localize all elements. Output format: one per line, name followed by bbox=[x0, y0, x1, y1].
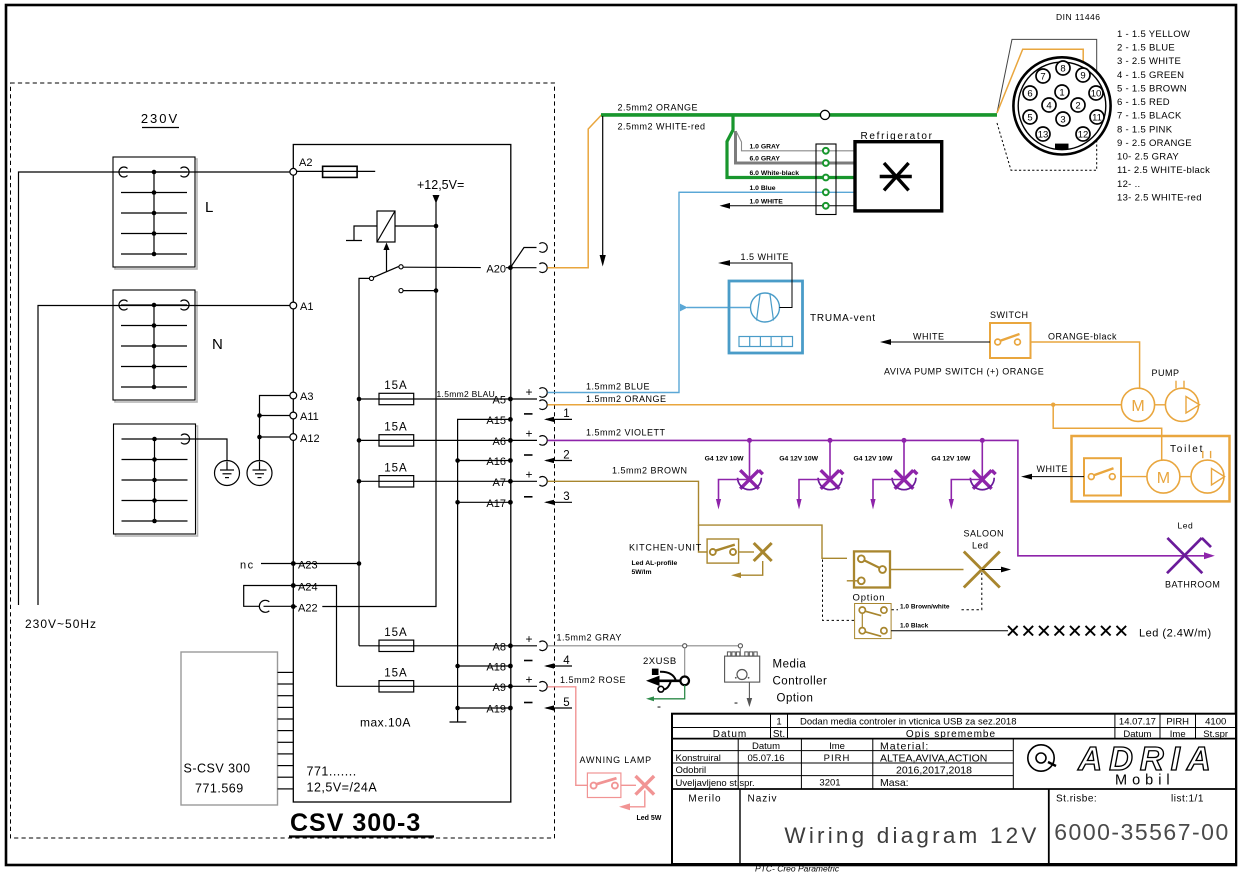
svg-text:G4 12V 10W: G4 12V 10W bbox=[931, 456, 970, 463]
svg-text:TRUMA-vent: TRUMA-vent bbox=[810, 313, 876, 324]
svg-text:+: + bbox=[526, 427, 533, 441]
ADRIA logo bbox=[1028, 740, 1218, 789]
terminal A7 bbox=[508, 479, 513, 484]
svg-text:St.risbe:: St.risbe: bbox=[1056, 794, 1097, 805]
svg-text:A8: A8 bbox=[493, 641, 506, 653]
wire A5 stub bbox=[510, 398, 537, 400]
wire 1.0 Black to led strip bbox=[891, 630, 1008, 632]
svg-text:PIRH: PIRH bbox=[824, 753, 851, 764]
wire plug to A22 bbox=[264, 605, 294, 607]
terminal A5 bbox=[508, 397, 513, 402]
wire brown branch to kitchen switch bbox=[699, 525, 708, 552]
svg-text:1 - 1.5 YELLOW: 1 - 1.5 YELLOW bbox=[1117, 29, 1190, 40]
svg-text:230V: 230V bbox=[141, 111, 179, 126]
pin 8 bbox=[1056, 61, 1070, 75]
junction orange to toilet bbox=[1051, 403, 1055, 407]
wire contact NO to A20 bbox=[403, 266, 510, 269]
svg-text:Material:: Material: bbox=[880, 740, 929, 752]
wire N neutral from supply to A1 bbox=[38, 306, 293, 606]
svg-text:A19: A19 bbox=[486, 704, 506, 716]
connector pin S-CSV 9 bbox=[278, 765, 294, 767]
svg-text:DIN 11446: DIN 11446 bbox=[1056, 12, 1101, 22]
wire L phase from supply to A2 bbox=[19, 172, 294, 605]
relay K1 bbox=[377, 211, 395, 242]
arrow violet wire end bbox=[1204, 552, 1215, 559]
connector pin S-CSV 11 bbox=[278, 788, 294, 790]
svg-text:A1: A1 bbox=[300, 301, 313, 313]
dotted outline bottom bbox=[997, 123, 1097, 170]
terminal A1 bbox=[290, 302, 297, 309]
svg-text:771.569: 771.569 bbox=[195, 782, 244, 796]
svg-text:1.5mm2 ORANGE: 1.5mm2 ORANGE bbox=[586, 394, 667, 404]
kitchen Led lamp bbox=[754, 543, 772, 561]
svg-text:13: 13 bbox=[1038, 129, 1049, 140]
terminal A24 bbox=[291, 583, 296, 588]
title block bbox=[672, 714, 1236, 864]
svg-text:WHITE: WHITE bbox=[1037, 464, 1069, 474]
svg-text:15A: 15A bbox=[384, 627, 407, 639]
wire A9 stub bbox=[510, 685, 537, 687]
svg-text:1.5mm2 BROWN: 1.5mm2 BROWN bbox=[612, 466, 688, 476]
wire earth bus to A3/A11/A12 bbox=[260, 396, 294, 461]
svg-text:-: - bbox=[657, 699, 661, 713]
svg-text:A22: A22 bbox=[298, 603, 318, 615]
svg-text:6: 6 bbox=[1027, 88, 1032, 99]
svg-text:St.spr: St.spr bbox=[1203, 729, 1228, 740]
earth ground symbol 2 bbox=[247, 461, 272, 486]
wire switch to kitchen lamp bbox=[739, 551, 754, 553]
lamp G4 12V 10W #3 bbox=[854, 438, 918, 510]
svg-text:2.5mm2 WHITE-red: 2.5mm2 WHITE-red bbox=[618, 122, 706, 132]
connector hook A6 bbox=[539, 436, 547, 446]
wire media controller minus arrow bbox=[747, 682, 753, 707]
fuse 15A feeding A9 bbox=[379, 667, 414, 692]
ground symbol minus bus bbox=[450, 711, 467, 722]
svg-text:SALOON: SALOON bbox=[964, 529, 1005, 539]
svg-text:3 - 2.5 WHITE: 3 - 2.5 WHITE bbox=[1117, 56, 1181, 67]
led strip segment 8 bbox=[1117, 626, 1127, 636]
connector hook A20 upper bbox=[539, 243, 547, 253]
svg-text:A7: A7 bbox=[493, 477, 506, 489]
terminal A20 bbox=[508, 265, 513, 270]
svg-text:Mobil: Mobil bbox=[1115, 773, 1175, 789]
connector pin S-CSV 7 bbox=[278, 741, 294, 743]
svg-text:A16: A16 bbox=[486, 456, 506, 468]
wire fuse row A9 bbox=[337, 685, 511, 687]
svg-text:A2: A2 bbox=[299, 157, 312, 169]
wire WHITE to toilet switch bbox=[1021, 474, 1084, 480]
terminal A16 bbox=[508, 458, 513, 463]
svg-text:771.......: 771....... bbox=[307, 765, 357, 779]
svg-text:A12: A12 bbox=[300, 433, 320, 445]
svg-text:ORANGE-black: ORANGE-black bbox=[1048, 332, 1117, 342]
svg-text:1: 1 bbox=[1059, 87, 1064, 98]
svg-text:Controller: Controller bbox=[773, 676, 828, 688]
wire A7 stub bbox=[510, 480, 537, 482]
dashed boundary box CSV 300-3 bbox=[11, 83, 555, 838]
connector hook A8 bbox=[539, 641, 547, 651]
svg-text:1.0 WHITE: 1.0 WHITE bbox=[750, 198, 784, 205]
pin 10 bbox=[1089, 86, 1103, 100]
connector pin S-CSV 10 bbox=[278, 776, 294, 778]
pin 9 bbox=[1076, 68, 1090, 82]
connector pin S-CSV 6 bbox=[278, 730, 294, 732]
svg-text:Datum: Datum bbox=[1123, 729, 1151, 740]
wire blue branch to TRUMA bbox=[680, 304, 751, 312]
wire 1.0 GRAY thin bbox=[736, 131, 855, 151]
terminal block N (230V neutral) bbox=[113, 290, 197, 402]
snowflake symbol bbox=[880, 163, 912, 190]
S-CSV 300 module bbox=[181, 652, 278, 805]
terminal A6 bbox=[508, 438, 513, 443]
connector hook A5 blue bbox=[539, 388, 547, 398]
svg-text:10- 2.5 GRAY: 10- 2.5 GRAY bbox=[1117, 152, 1179, 163]
svg-text:Uveljavljeno st.spr.: Uveljavljeno st.spr. bbox=[676, 778, 755, 789]
plug socket on A22 line bbox=[259, 600, 269, 612]
Toilet unit box bbox=[1072, 436, 1230, 501]
pin 2 bbox=[1071, 98, 1085, 112]
svg-text:CSV 300-3: CSV 300-3 bbox=[290, 809, 421, 837]
connector hook A5 orange bbox=[539, 400, 547, 410]
svg-text:Datum: Datum bbox=[713, 729, 747, 740]
saloon Led lamp bbox=[964, 552, 1000, 588]
dotted link kitchen to option2 bbox=[823, 560, 855, 621]
svg-text:Ime: Ime bbox=[1170, 729, 1186, 740]
terminal A9 bbox=[508, 684, 513, 689]
svg-text:12- ..: 12- .. bbox=[1117, 179, 1140, 190]
terminal A18 bbox=[508, 664, 513, 669]
svg-text:AVIVA PUMP SWITCH (+) ORANGE: AVIVA PUMP SWITCH (+) ORANGE bbox=[884, 367, 1044, 377]
svg-text:6 - 1.5 RED: 6 - 1.5 RED bbox=[1117, 97, 1170, 108]
pump buzzer bbox=[1155, 381, 1200, 422]
toilet buzzer bbox=[1180, 451, 1225, 493]
fuse on A2 line bbox=[323, 166, 358, 177]
terminal block L (230V live) bbox=[113, 157, 197, 269]
svg-text:8 - 1.5 PINK: 8 - 1.5 PINK bbox=[1117, 124, 1173, 135]
svg-text:Toilet: Toilet bbox=[1170, 444, 1204, 455]
wire orange A20 feed up to main bus bbox=[548, 115, 602, 268]
svg-text:Opis spremembe: Opis spremembe bbox=[906, 729, 996, 740]
svg-text:St.: St. bbox=[773, 729, 785, 740]
led strip segment 2 bbox=[1024, 626, 1034, 636]
svg-text:15A: 15A bbox=[384, 421, 407, 433]
lamp G4 12V 10W #4 bbox=[931, 438, 995, 510]
wire 6.0 GRAY thick bbox=[736, 131, 856, 163]
wire A24 to fuse A9 feed bbox=[293, 586, 336, 687]
wire 1.5mm2 BROWN from A7 to kitchen/saloon bbox=[548, 481, 848, 558]
pin 13 bbox=[1036, 127, 1050, 141]
keying notch bbox=[1055, 144, 1069, 149]
kitchen switch bbox=[707, 539, 739, 563]
wire 6.0 White-black green drop bbox=[727, 117, 855, 178]
svg-text:Led: Led bbox=[972, 541, 989, 551]
svg-text:A23: A23 bbox=[298, 560, 318, 572]
svg-text:1.0 Blue: 1.0 Blue bbox=[750, 185, 776, 192]
svg-text:+12,5V=: +12,5V= bbox=[417, 178, 464, 192]
wire ORANGE-black switch to pump bbox=[1031, 342, 1140, 388]
svg-text:14.07.17: 14.07.17 bbox=[1119, 717, 1156, 728]
svg-text:5: 5 bbox=[1027, 112, 1032, 123]
svg-text:SWITCH: SWITCH bbox=[990, 310, 1029, 320]
pin 5 bbox=[1023, 110, 1037, 124]
led strip segment 1 bbox=[1008, 626, 1018, 636]
connector pin S-CSV 3 bbox=[278, 695, 294, 697]
svg-text:A18: A18 bbox=[486, 662, 506, 674]
awning switch bbox=[587, 773, 621, 798]
USB socket symbol bbox=[646, 669, 689, 693]
svg-text:Dodan media controler in vticn: Dodan media controler in vticnica USB za… bbox=[800, 717, 1017, 728]
svg-text:BATHROOM: BATHROOM bbox=[1165, 580, 1220, 590]
connector strip pin at y151 bbox=[823, 148, 829, 154]
svg-text:N: N bbox=[212, 336, 223, 353]
12V rail vertical wire bbox=[293, 200, 436, 607]
relay actuation arrow bbox=[383, 243, 389, 273]
wire 1.5 WHITE from TRUMA fan bbox=[718, 260, 792, 307]
svg-text:list:1/1: list:1/1 bbox=[1171, 794, 1204, 805]
svg-text:1.5mm2 VIOLETT: 1.5mm2 VIOLETT bbox=[586, 428, 666, 438]
toilet motor M bbox=[1121, 460, 1180, 493]
wire A6 stub bbox=[510, 439, 537, 441]
svg-text:1.5mm2 GRAY: 1.5mm2 GRAY bbox=[557, 633, 622, 643]
wire switch common down to fuse feed bbox=[359, 278, 369, 645]
DIN 11446 plug outline bbox=[997, 39, 1097, 113]
svg-text:5: 5 bbox=[563, 697, 569, 709]
wire minus bus to A17 bbox=[458, 501, 511, 503]
fuse 15A feeding A8 bbox=[379, 627, 414, 652]
minus return wire 1 bbox=[524, 408, 572, 422]
svg-text:Media: Media bbox=[773, 659, 807, 671]
wire kitchen lamp return arrow bbox=[731, 561, 763, 578]
svg-text:12,5V=/24A: 12,5V=/24A bbox=[307, 781, 378, 795]
connector hook A7 bbox=[539, 477, 547, 487]
svg-text:L: L bbox=[205, 199, 213, 216]
terminal A12 bbox=[290, 434, 297, 441]
connector hook A9 bbox=[539, 682, 547, 692]
wire orange feed to toilet motor bbox=[1053, 405, 1162, 461]
svg-text:AWNING LAMP: AWNING LAMP bbox=[580, 755, 652, 765]
bathroom Led lamp bbox=[1167, 538, 1211, 573]
svg-text:13- 2.5 WHITE-red: 13- 2.5 WHITE-red bbox=[1117, 192, 1202, 203]
svg-text:7: 7 bbox=[1040, 71, 1045, 82]
pump switch S1 bbox=[990, 323, 1031, 358]
connector strip pin at y163 bbox=[823, 160, 829, 166]
label 1.0 Black bbox=[898, 621, 936, 630]
led strip segment 5 bbox=[1070, 626, 1080, 636]
svg-text:+: + bbox=[526, 673, 533, 687]
wire fuse row A8 bbox=[359, 645, 510, 647]
svg-text:2: 2 bbox=[563, 449, 569, 461]
svg-text:4 - 1.5 GREEN: 4 - 1.5 GREEN bbox=[1117, 70, 1184, 81]
wire drop to media controller bbox=[739, 648, 741, 656]
svg-text:A15: A15 bbox=[486, 415, 506, 427]
terminal A17 bbox=[508, 500, 513, 505]
pump motor M bbox=[1121, 388, 1154, 421]
svg-text:Led AL-profile: Led AL-profile bbox=[632, 560, 678, 567]
dotted link saloon to option2 bbox=[891, 573, 982, 610]
terminal block PE (earth) bbox=[114, 424, 198, 536]
svg-text:WHITE: WHITE bbox=[913, 332, 945, 342]
svg-text:S-CSV 300: S-CSV 300 bbox=[184, 762, 251, 776]
terminal A15 bbox=[508, 417, 513, 422]
svg-text:15A: 15A bbox=[384, 462, 407, 474]
pin 12 bbox=[1076, 127, 1090, 141]
terminal A19 bbox=[508, 706, 513, 711]
wire 1.0 Blue into fridge bbox=[679, 191, 855, 193]
svg-text:Ime: Ime bbox=[829, 741, 845, 752]
svg-text:Odobril: Odobril bbox=[676, 765, 707, 776]
pin 7 bbox=[1036, 69, 1050, 83]
saloon option switch bbox=[847, 551, 890, 587]
svg-text:1.0 Brown/white: 1.0 Brown/white bbox=[900, 603, 950, 610]
svg-text:2 - 1.5 BLUE: 2 - 1.5 BLUE bbox=[1117, 43, 1175, 54]
wire option to saloon led bbox=[890, 569, 964, 571]
svg-text:6.0 GRAY: 6.0 GRAY bbox=[750, 155, 781, 162]
svg-text:A20: A20 bbox=[486, 263, 506, 275]
junction on gray wire for media controller bbox=[738, 644, 742, 648]
lamp G4 12V 10W #1 bbox=[705, 438, 763, 510]
option relay box 2 bbox=[855, 604, 892, 639]
svg-text:5 - 1.5 BROWN: 5 - 1.5 BROWN bbox=[1117, 84, 1187, 95]
wire A20 to hooks bbox=[510, 267, 536, 269]
wire switch to awning lamp bbox=[621, 784, 636, 786]
minus bus from A15 bbox=[458, 419, 511, 711]
svg-text:G4 12V 10W: G4 12V 10W bbox=[854, 456, 893, 463]
terminal A8 bbox=[508, 643, 513, 648]
pin 3 bbox=[1056, 112, 1070, 126]
relay switch contact NO bbox=[399, 265, 403, 269]
svg-text:Led 5W: Led 5W bbox=[637, 815, 662, 822]
svg-text:M: M bbox=[1131, 398, 1144, 415]
wire relay coil to 12V rail bbox=[395, 225, 436, 227]
svg-text:Wiring diagram 12V: Wiring diagram 12V bbox=[784, 823, 1039, 848]
svg-text:4: 4 bbox=[1046, 100, 1051, 111]
svg-text:9 - 2.5 ORANGE: 9 - 2.5 ORANGE bbox=[1117, 138, 1192, 149]
svg-text:4: 4 bbox=[563, 655, 570, 667]
minus return wire 3 bbox=[524, 491, 572, 505]
svg-text:15A: 15A bbox=[384, 667, 407, 679]
svg-text:7 - 1.5 BLACK: 7 - 1.5 BLACK bbox=[1117, 111, 1182, 122]
CSV controller unit box bbox=[293, 145, 511, 803]
svg-text:2016,2017,2018: 2016,2017,2018 bbox=[896, 765, 972, 777]
svg-text:M: M bbox=[1157, 470, 1170, 487]
wire 1.5mm2 ROSE from A9 to awning lamp bbox=[548, 687, 588, 786]
wire 1.0 WHITE with arrow bbox=[720, 203, 856, 209]
terminal A2 bbox=[290, 168, 297, 175]
wire 1.5mm2 ORANGE from A5 to pump bbox=[548, 404, 1122, 406]
svg-text:1: 1 bbox=[776, 717, 781, 728]
svg-text:Refrigerator: Refrigerator bbox=[861, 131, 934, 142]
DIN connector body bbox=[1013, 57, 1110, 154]
svg-text:1.5mm2 ROSE: 1.5mm2 ROSE bbox=[560, 675, 626, 685]
media controller box bbox=[725, 652, 760, 682]
svg-text:Option: Option bbox=[853, 593, 886, 604]
led strip segment 7 bbox=[1101, 626, 1111, 636]
wire 2.5mm2 WHITE-red return with arrow bbox=[600, 116, 606, 267]
svg-text:-: - bbox=[734, 695, 738, 709]
fuse 15A feeding A6 bbox=[379, 421, 414, 446]
orange wire to pin 9 bbox=[997, 49, 1083, 113]
svg-text:12: 12 bbox=[1078, 129, 1089, 140]
wire minus bus to A16 bbox=[458, 460, 511, 462]
svg-text:15A: 15A bbox=[384, 380, 407, 392]
led strip segment 3 bbox=[1039, 626, 1049, 636]
wire A23 to fuse feed rail bbox=[293, 563, 359, 565]
arrow saloon led output bbox=[982, 567, 1011, 573]
connector strip pin at y192 bbox=[823, 189, 829, 195]
wire 1.5mm2 GRAY from A8 to media bbox=[548, 645, 741, 647]
wire A8 stub bbox=[510, 645, 537, 647]
wire minus bus to A18 bbox=[458, 665, 511, 667]
connector pin S-CSV 4 bbox=[278, 706, 294, 708]
wire 1.5mm2 VIOLETT bus from A6 bbox=[548, 440, 1213, 555]
fuse 15A feeding A7 bbox=[379, 462, 414, 487]
pin 4 bbox=[1042, 98, 1056, 112]
relay switch blade bbox=[374, 267, 399, 278]
svg-text:Led: Led bbox=[1178, 521, 1194, 531]
svg-text:1.5mm2 BLUE: 1.5mm2 BLUE bbox=[586, 382, 650, 392]
svg-text:05.07.16: 05.07.16 bbox=[748, 753, 785, 764]
svg-text:nc: nc bbox=[240, 560, 255, 572]
connector pin S-CSV 8 bbox=[278, 753, 294, 755]
svg-text:3201: 3201 bbox=[819, 777, 840, 788]
svg-text:5W/lm: 5W/lm bbox=[632, 569, 652, 576]
svg-text:+: + bbox=[526, 632, 533, 646]
svg-text:10: 10 bbox=[1091, 88, 1102, 99]
svg-text:Led (2.4W/m): Led (2.4W/m) bbox=[1139, 628, 1212, 640]
terminal A3 bbox=[290, 392, 297, 399]
wire minus bus to A19 bbox=[458, 707, 511, 709]
svg-text:KITCHEN-UNIT: KITCHEN-UNIT bbox=[629, 543, 702, 553]
wire WHITE to switch bbox=[880, 339, 990, 345]
svg-text:A11: A11 bbox=[300, 411, 319, 423]
relay switch common contact bbox=[369, 276, 373, 280]
wire fuse row A5 bbox=[359, 398, 510, 400]
wire PE block to earth symbol bbox=[188, 439, 228, 461]
junction circle on green bus bbox=[820, 110, 829, 119]
connector pin S-CSV 2 bbox=[278, 683, 294, 685]
svg-text:9: 9 bbox=[1080, 70, 1085, 81]
pin 1 bbox=[1055, 85, 1069, 99]
svg-text:2XUSB: 2XUSB bbox=[643, 656, 677, 667]
svg-text:Naziv: Naziv bbox=[748, 794, 778, 805]
lamp G4 12V 10W #2 bbox=[779, 438, 843, 510]
minus return wire 4 bbox=[524, 655, 572, 669]
wire 2.5mm2 ORANGE main green bus bbox=[601, 113, 997, 117]
svg-text:1.0 Black: 1.0 Black bbox=[900, 622, 929, 629]
svg-text:3: 3 bbox=[563, 491, 569, 503]
wire 1.5mm2 BLUE from A5 to fridge/TRUMA bbox=[548, 192, 817, 392]
svg-text:A24: A24 bbox=[298, 582, 318, 594]
svg-text:1.0 GRAY: 1.0 GRAY bbox=[750, 143, 781, 150]
relay coil ground bbox=[346, 226, 377, 241]
svg-text:Option: Option bbox=[777, 693, 814, 705]
minus return wire 2 bbox=[524, 449, 572, 463]
wire junction to A11 bbox=[260, 415, 294, 417]
svg-text:+: + bbox=[526, 385, 533, 399]
minus return wire 5 bbox=[524, 697, 572, 711]
connector hook A20 output bbox=[539, 263, 547, 273]
pin 11 bbox=[1090, 110, 1104, 124]
svg-text:1.5mm2 BLAU: 1.5mm2 BLAU bbox=[437, 389, 496, 399]
svg-text:Masa:: Masa: bbox=[880, 777, 909, 789]
terminal A22 bbox=[291, 604, 296, 609]
svg-text:A6: A6 bbox=[493, 436, 506, 448]
wire junction to A12 bbox=[260, 436, 294, 438]
wire fuse row A6 bbox=[359, 439, 510, 441]
12V supply arrow bbox=[433, 195, 440, 204]
wire nc to A23 bbox=[261, 563, 293, 565]
svg-text:+: + bbox=[526, 468, 533, 482]
